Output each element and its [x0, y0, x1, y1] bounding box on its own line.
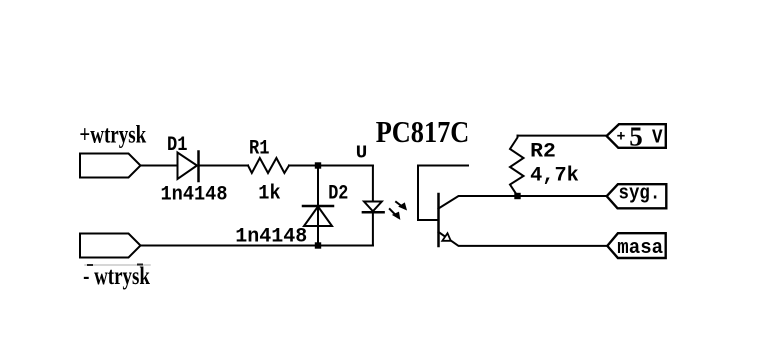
svg-text:PC817C: PC817C	[376, 114, 470, 149]
svg-text:D1: D1	[167, 134, 188, 157]
svg-text:5: 5	[629, 122, 643, 152]
svg-text:R2: R2	[530, 141, 556, 164]
svg-text:D2: D2	[328, 183, 348, 206]
svg-text:U: U	[356, 144, 368, 164]
svg-text:masa: masa	[617, 237, 663, 260]
svg-text:1k: 1k	[258, 182, 280, 205]
svg-text:+: +	[617, 128, 626, 145]
svg-text:1n4148: 1n4148	[235, 226, 307, 249]
svg-text:R1: R1	[249, 138, 270, 161]
svg-text:1n4148: 1n4148	[161, 184, 228, 207]
svg-text:+wtrysk: +wtrysk	[79, 122, 146, 149]
svg-text:4,7k: 4,7k	[530, 165, 579, 188]
svg-text:V: V	[652, 127, 663, 149]
svg-text:- wtrysk: - wtrysk	[83, 263, 150, 290]
svg-text:syg.: syg.	[619, 182, 661, 205]
